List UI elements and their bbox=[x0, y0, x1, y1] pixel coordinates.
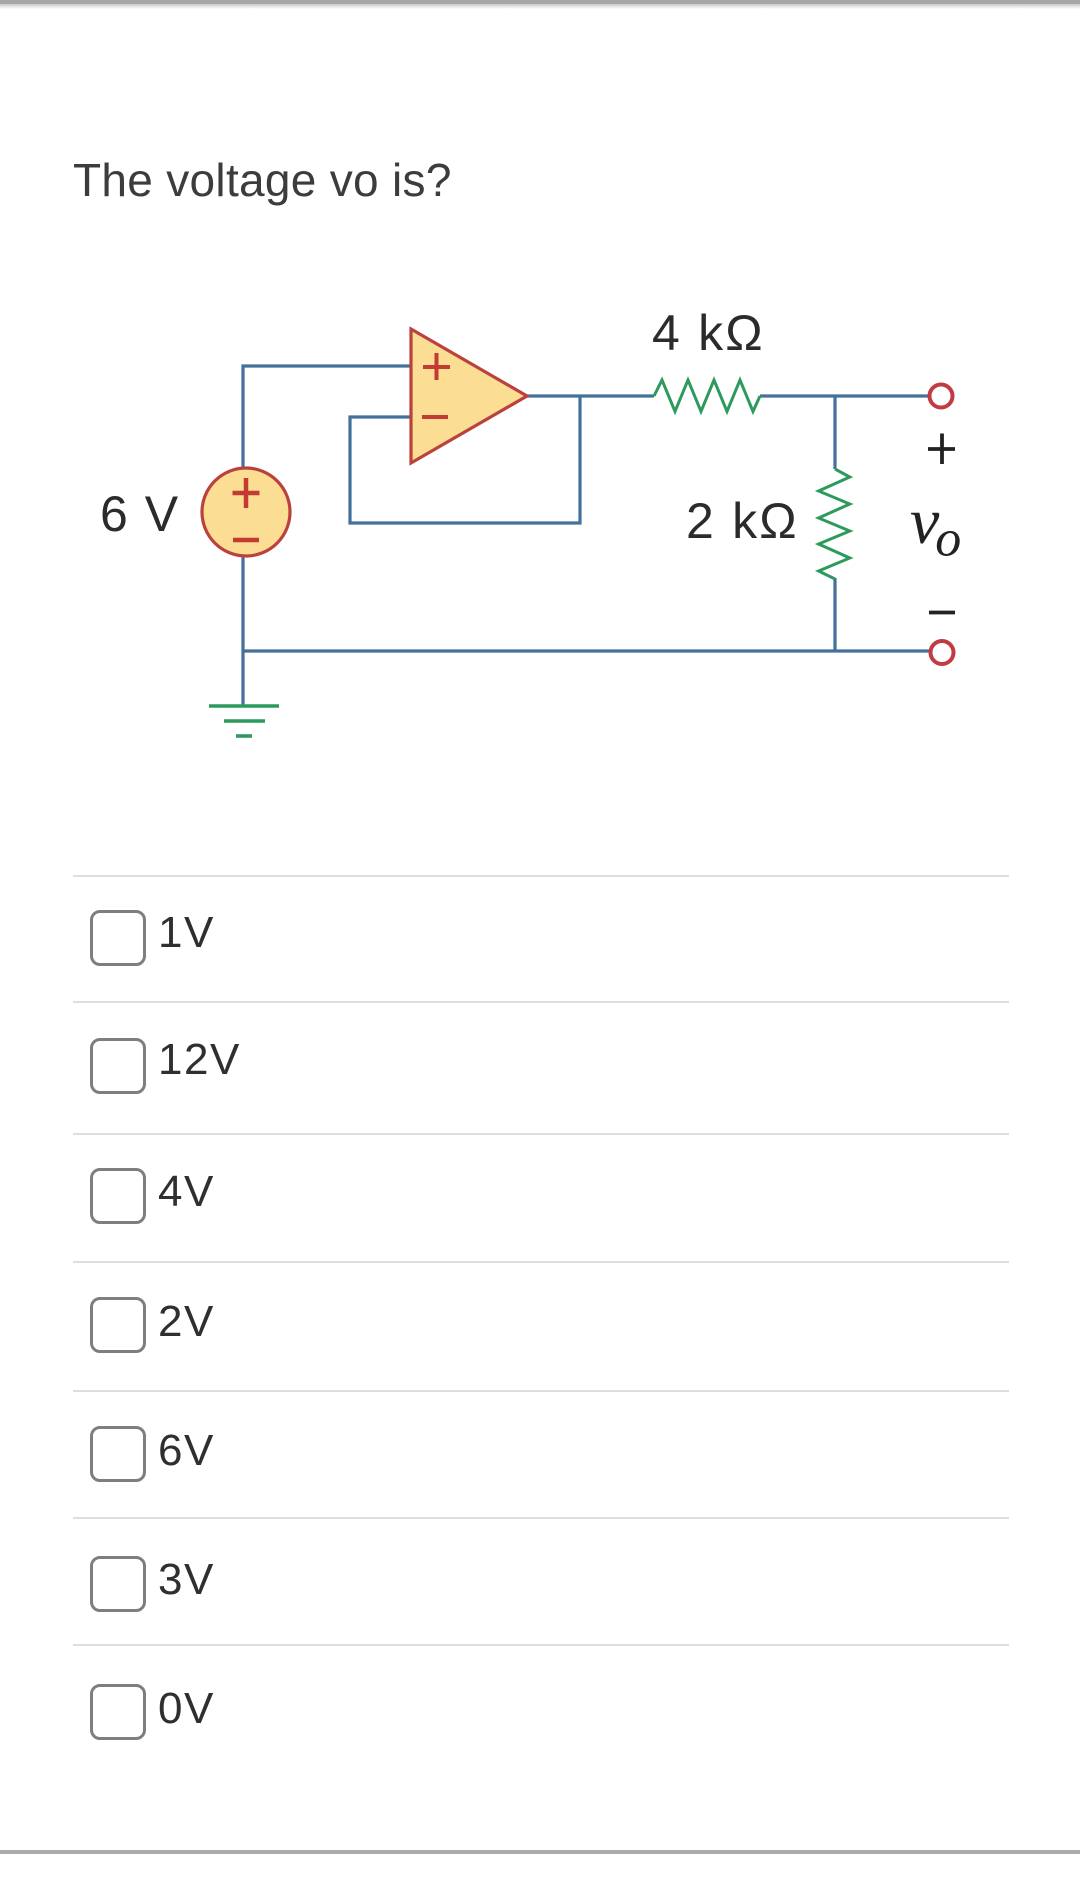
op-amp minus input marking bbox=[422, 415, 448, 419]
feedback wire from output node to inverting input bbox=[350, 396, 580, 523]
op-amp U1 bbox=[411, 329, 527, 463]
svg-text:vo: vo bbox=[910, 485, 961, 568]
output minus polarity label bbox=[929, 611, 955, 615]
output terminal node top bbox=[930, 385, 953, 408]
wire junction down to 2k resistor top bbox=[833, 396, 836, 469]
wire op-amp output to first terminal bbox=[527, 394, 654, 397]
voltage source VS 6V bbox=[202, 468, 290, 556]
wire 2k resistor bottom to ground rail bbox=[833, 578, 836, 651]
wire from 4k resistor right to output terminal bbox=[760, 394, 938, 397]
output terminal node bottom bbox=[931, 641, 954, 664]
source plus marking bbox=[233, 478, 260, 508]
resistor R1 4k bbox=[654, 380, 760, 412]
output plus polarity label bbox=[928, 434, 955, 465]
svg-text:6 V: 6 V bbox=[100, 486, 180, 542]
ground bbox=[209, 706, 279, 736]
bottom ground rail wire bbox=[243, 649, 940, 652]
wire source bottom to ground bbox=[241, 557, 244, 705]
svg-text:2 kΩ: 2 kΩ bbox=[686, 493, 799, 549]
op-amp plus input marking bbox=[423, 353, 450, 380]
source minus marking bbox=[233, 538, 259, 543]
svg-text:4 kΩ: 4 kΩ bbox=[652, 305, 765, 361]
wire from source top to op-amp noninverting input bbox=[243, 366, 411, 468]
resistor R2 2k bbox=[819, 469, 850, 579]
